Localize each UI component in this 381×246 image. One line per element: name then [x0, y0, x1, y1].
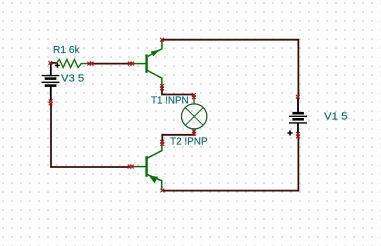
wire: battery V3 bottom to T2 base — [51, 103, 130, 168]
svg-text:R1 6k: R1 6k — [53, 44, 80, 56]
pin: lamp bottom — [192, 130, 196, 136]
pin: V1 top — [296, 95, 300, 99]
wire: battery V1 bottom to T2 emitter (bottom rail) — [162, 135, 298, 191]
pin: T2 emitter — [161, 189, 165, 193]
resistor R1 — [56, 60, 89, 68]
battery V3 — [42, 63, 60, 102]
transistor T2 emitter arrow — [149, 176, 158, 184]
wire: net from T1 top pin to battery V1 top (top rail) — [162, 40, 298, 97]
pin: V3 top / R1 left junction — [48, 61, 52, 65]
transistor T2 base lead — [131, 166, 146, 168]
pin: T1 emitter — [160, 84, 164, 90]
lamp — [182, 96, 207, 133]
svg-text:T1 !NPN: T1 !NPN — [151, 95, 189, 107]
transistor T2 — [147, 143, 162, 190]
pin: lamp top — [192, 93, 196, 99]
pin: T1 top — [160, 38, 164, 42]
pin: V1 bottom — [296, 132, 300, 138]
transistor T1 — [147, 40, 162, 87]
wire: T1 emitter to lamp top — [162, 87, 194, 95]
pin: T2 collector — [160, 140, 164, 146]
pin: T2 base — [128, 165, 134, 169]
pin: R1 right — [87, 62, 93, 66]
pin: V3 bottom — [49, 99, 53, 105]
wire: R1 right end to T1 base — [90, 63, 131, 65]
svg-text:T2 !PNP: T2 !PNP — [170, 136, 208, 148]
svg-text:V3 5: V3 5 — [61, 73, 84, 85]
wire: lamp bottom to T2 collector — [162, 132, 194, 142]
transistor T1 emitter arrow — [151, 50, 160, 57]
battery V1 — [289, 97, 307, 135]
transistor T1 base lead — [131, 63, 146, 65]
wire: V3 top junction to R1 left end — [50, 62, 56, 64]
battery V1 plus sign — [287, 130, 292, 135]
svg-text:V1 5: V1 5 — [324, 111, 348, 123]
battery V3 plus sign — [55, 63, 60, 68]
pin: T1 base — [128, 62, 134, 66]
